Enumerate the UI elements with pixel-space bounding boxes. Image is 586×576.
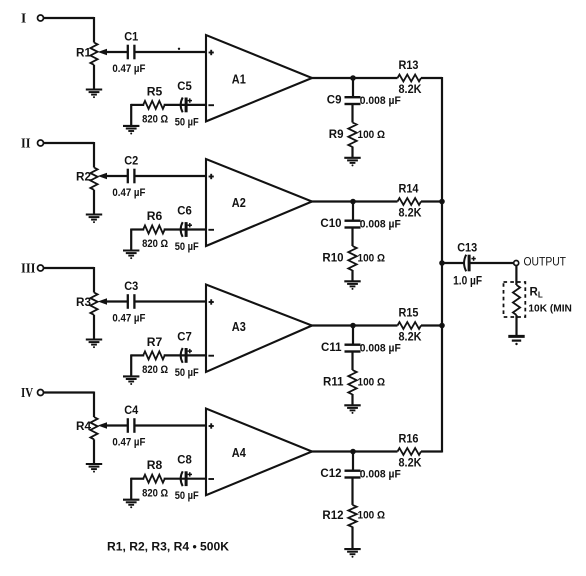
wire: pot R2 to ground (93, 190, 95, 215)
resistor R14 (398, 198, 422, 205)
wire: C4 to op-amp A4 + input (136, 424, 208, 426)
wire: feedback ground corner to R8 (131, 478, 144, 480)
ground (below R3) (86, 338, 102, 340)
capacitor C1 (127, 45, 129, 60)
svg-text:0.008 µF: 0.008 µF (360, 219, 401, 231)
ground (feedback R5) (123, 125, 139, 127)
capacitor C7 (electrolytic) (181, 348, 183, 363)
potentiometer R2 (90, 168, 97, 190)
svg-text:C1: C1 (124, 32, 139, 44)
potentiometer R4 (90, 417, 97, 439)
svg-text:C2: C2 (124, 156, 138, 168)
svg-text:0.47 µF: 0.47 µF (112, 187, 145, 199)
resistor R10 (348, 246, 356, 271)
svg-text:8.2K: 8.2K (399, 208, 423, 220)
svg-text:C5: C5 (177, 81, 192, 93)
svg-text:0.47 µF: 0.47 µF (112, 63, 145, 75)
svg-text:50 µF: 50 µF (175, 241, 199, 253)
wire: bus to C13 (442, 262, 464, 264)
dashed box around RL (504, 282, 526, 317)
capacitor C9 (345, 96, 361, 98)
svg-text:R5: R5 (147, 86, 163, 98)
svg-text:R1: R1 (76, 48, 92, 60)
svg-text:100 Ω: 100 Ω (358, 510, 386, 522)
svg-text:OUTPUT: OUTPUT (524, 256, 567, 268)
svg-text:C9: C9 (327, 95, 342, 107)
wire: R5 via C5 to - input of A1 (164, 104, 207, 106)
speck artifact (178, 48, 180, 50)
svg-text:50 µF: 50 µF (175, 116, 199, 128)
svg-text:R16: R16 (399, 433, 419, 445)
wire: pot R1 to ground (93, 65, 95, 90)
capacitor C3 (127, 294, 129, 309)
svg-text:C3: C3 (124, 281, 138, 293)
svg-text:R14: R14 (399, 183, 420, 195)
wire: junction to C12 (352, 452, 354, 471)
wiper arrow of R3 and wire to C3 (99, 299, 106, 304)
resistor RL (load) (513, 285, 520, 315)
wire: feedback ground corner to R5 (131, 104, 144, 106)
potentiometer R1 (90, 43, 97, 65)
svg-text:R3: R3 (76, 297, 91, 309)
op-amp A1 (206, 35, 312, 121)
junction at A3 output (350, 323, 356, 329)
input terminal IV (38, 390, 44, 396)
svg-text:R1, R2, R3, R4 • 500K: R1, R2, R3, R4 • 500K (107, 540, 229, 554)
wire: feedback ground corner to R7 (131, 354, 144, 356)
svg-text:1.0 µF: 1.0 µF (453, 276, 482, 288)
junction at A1 output (350, 75, 356, 81)
wire: R15 to summing bus (421, 324, 442, 326)
junction at A2 output (350, 199, 356, 205)
wire: OUTPUT terminal to RL (515, 266, 517, 286)
capacitor C13 (electrolytic) (464, 255, 466, 272)
resistor R16 (398, 448, 422, 455)
capacitor C8 (electrolytic) (181, 471, 183, 486)
op-amp A4 (206, 409, 312, 496)
A4 + input mark (209, 425, 214, 427)
A3 - input mark (208, 355, 214, 357)
svg-text:100 Ω: 100 Ω (358, 376, 386, 388)
wire: C12 to R12 (351, 478, 353, 505)
wire: C10 to R10 (351, 228, 353, 247)
OUTPUT terminal (514, 261, 519, 266)
potentiometer R3 (90, 293, 97, 315)
wire: R9 to ground (351, 147, 353, 158)
svg-text:0.008 µF: 0.008 µF (360, 95, 401, 107)
svg-text:C12: C12 (320, 468, 341, 480)
svg-text:0.47 µF: 0.47 µF (112, 436, 145, 448)
svg-text:820 Ω: 820 Ω (142, 238, 168, 250)
wire: R7 via C7 to - input of A3 (164, 354, 207, 356)
svg-text:820 Ω: 820 Ω (142, 364, 168, 376)
svg-text:8.2K: 8.2K (399, 458, 423, 470)
wiper arrow of R2 and wire to C2 (99, 174, 106, 179)
ground (below R11) (344, 404, 360, 406)
junction: bus / R14 (439, 199, 445, 205)
svg-text:0.008 µF: 0.008 µF (360, 469, 401, 481)
wire: junction to C10 (352, 202, 354, 221)
svg-text:III: III (21, 261, 36, 276)
capacitor C12 (345, 470, 361, 472)
A1 - input mark (208, 104, 214, 106)
svg-text:I: I (21, 11, 26, 26)
junction: bus / output tap (439, 260, 445, 266)
wire: R13 to summing bus (421, 77, 442, 79)
svg-text:R6: R6 (147, 211, 163, 223)
wiper arrow of R4 and wire to C4 (99, 423, 106, 428)
ground (feedback R7) (123, 375, 139, 377)
svg-text:0.47 µF: 0.47 µF (112, 312, 145, 324)
wire: terminal IV to pot R4 (44, 391, 94, 393)
wire: C3 to op-amp A3 + input (136, 300, 208, 302)
ground (below RL) (508, 335, 524, 338)
svg-text:IV: IV (21, 386, 33, 401)
svg-text:820 Ω: 820 Ω (142, 487, 168, 499)
capacitor C11 (345, 344, 361, 346)
resistor R7 (143, 351, 165, 359)
capacitor C10 (345, 219, 361, 221)
svg-text:R11: R11 (323, 377, 344, 389)
svg-text:R13: R13 (399, 60, 419, 72)
resistor R6 (143, 226, 165, 234)
wire: terminal I to pot R1 (44, 17, 94, 19)
junction at A4 output (350, 449, 356, 455)
svg-text:A3: A3 (232, 319, 246, 334)
svg-text:100 Ω: 100 Ω (358, 252, 386, 264)
svg-text:A4: A4 (232, 445, 247, 460)
svg-text:C8: C8 (177, 455, 192, 467)
capacitor C2 (127, 169, 129, 184)
ground (below R9) (344, 157, 360, 159)
resistor R15 (398, 322, 422, 329)
resistor R13 (398, 75, 422, 82)
resistor R12 (348, 505, 356, 527)
svg-text:10K (MIN: 10K (MIN (528, 303, 572, 315)
op-amp A3 (206, 285, 312, 372)
svg-text:R10: R10 (322, 253, 343, 265)
ground (feedback R6) (123, 249, 139, 251)
wire: C13 to OUTPUT terminal (470, 262, 513, 264)
svg-text:R8: R8 (147, 460, 163, 472)
wire: R11 to ground (351, 394, 353, 405)
wire: C1 to op-amp A1 + input (136, 51, 208, 53)
svg-text:R7: R7 (147, 337, 163, 349)
wire: R16 to summing bus (421, 450, 442, 452)
resistor R8 (143, 475, 165, 483)
svg-text:R9: R9 (329, 129, 344, 141)
svg-text:R15: R15 (399, 307, 420, 319)
svg-text:100 Ω: 100 Ω (358, 129, 386, 141)
wire: A2 output to R14 (311, 200, 398, 202)
resistor R9 (348, 123, 356, 148)
wiper arrow of R1 and wire to C1 (99, 50, 106, 55)
resistor R5 (143, 101, 165, 109)
ground (feedback R8) (123, 499, 139, 501)
svg-text:A2: A2 (232, 195, 246, 210)
svg-text:II: II (21, 136, 31, 151)
svg-text:C7: C7 (177, 331, 192, 343)
wire: R14 to summing bus (421, 200, 442, 202)
ground (below R2) (86, 213, 102, 215)
svg-text:C4: C4 (124, 405, 139, 417)
svg-text:A1: A1 (232, 72, 246, 87)
op-amp A2 (206, 159, 312, 246)
wire: pot R3 to ground (93, 315, 95, 340)
capacitor C5 (electrolytic) (181, 98, 183, 113)
wire: R10 to ground (351, 270, 353, 281)
svg-text:50 µF: 50 µF (175, 490, 199, 502)
wire: junction to C9 (352, 78, 354, 97)
ground (below R1) (86, 88, 102, 90)
wire: RL to ground (515, 315, 517, 336)
wire: C11 to R11 (351, 352, 353, 371)
wire: summing bus (441, 77, 443, 453)
ground (below R10) (344, 280, 360, 282)
svg-text:C6: C6 (177, 206, 192, 218)
svg-text:C10: C10 (320, 218, 341, 230)
wire: R8 via C8 to - input of A4 (164, 478, 207, 480)
wire: R12 to ground (351, 527, 353, 550)
wire: pot R4 to ground (93, 439, 95, 464)
A4 - input mark (208, 478, 214, 480)
resistor R11 (348, 370, 356, 395)
wire: A4 output to R16 (311, 450, 398, 452)
wire: A3 output to R15 (311, 324, 398, 326)
ground (below R4) (86, 463, 102, 465)
A2 + input mark (209, 176, 214, 178)
svg-text:50 µF: 50 µF (175, 367, 199, 379)
wire: A1 output to R13 (311, 77, 398, 79)
input terminal II (38, 140, 44, 146)
A3 + input mark (209, 301, 214, 303)
wire: terminal III to pot R3 (44, 267, 94, 269)
wire: terminal II to pot R2 (44, 142, 94, 144)
input terminal I (38, 15, 44, 21)
wire: C2 to op-amp A2 + input (136, 175, 208, 177)
wire: R6 via C6 to - input of A2 (164, 228, 207, 230)
svg-text:R12: R12 (322, 510, 343, 522)
input terminal III (38, 265, 44, 271)
junction: bus / R15 (439, 323, 445, 329)
A2 - input mark (208, 229, 214, 231)
svg-text:C13: C13 (457, 242, 477, 254)
svg-text:820 Ω: 820 Ω (142, 113, 168, 125)
capacitor C4 (127, 418, 129, 433)
wire: feedback ground corner to R6 (131, 228, 144, 230)
ground (below R12) (344, 548, 360, 550)
capacitor C6 (electrolytic) (181, 222, 183, 237)
svg-text:0.008 µF: 0.008 µF (360, 343, 401, 355)
wire: junction to C11 (352, 326, 354, 345)
svg-text:8.2K: 8.2K (399, 84, 423, 96)
svg-text:R2: R2 (76, 172, 91, 184)
wire: C9 to R9 (351, 104, 353, 123)
svg-text:R4: R4 (76, 421, 92, 433)
svg-text:C11: C11 (321, 342, 342, 354)
A1 + input mark (209, 52, 214, 54)
svg-text:8.2K: 8.2K (399, 332, 423, 344)
